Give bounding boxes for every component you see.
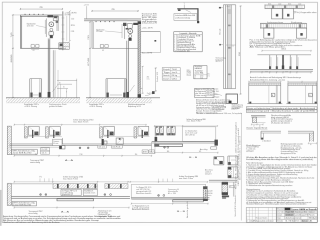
bottom dimension details section A <box>57 80 77 82</box>
label box bottom left row2 <box>12 201 36 205</box>
svg-text:Nr.1: Nr.1 <box>227 6 231 8</box>
dim row2 right <box>131 203 208 205</box>
svg-text:Hinweis zu 4+5:: Hinweis zu 4+5: <box>195 89 206 91</box>
door leaf section B <box>126 41 128 97</box>
svg-text:Revision Boden: Revision Boden <box>256 218 268 220</box>
svg-text:12.03.04: 12.03.04 <box>286 214 293 216</box>
svg-text:Doppelboden OKFF =: Doppelboden OKFF = <box>89 104 104 106</box>
svg-text:3855: 3855 <box>281 49 286 51</box>
ceiling slab double line section B <box>84 18 141 20</box>
small stacked boxes row1 <box>41 148 50 151</box>
end post row1 right <box>214 140 217 146</box>
svg-text:850: 850 <box>135 154 138 156</box>
text block under bracket A <box>246 143 303 155</box>
svg-text:25 kg: 25 kg <box>207 94 212 96</box>
extra vertical and diagonal leader section A bottom <box>57 70 59 97</box>
svg-text:TW-01: TW-01 <box>172 69 178 71</box>
svg-text:B: B <box>272 95 273 97</box>
svg-text:2740: 2740 <box>88 58 90 66</box>
svg-text:UK CW 50: UK CW 50 <box>185 134 195 136</box>
svg-text:alle 600 mm in UK-Profil, Dueb: alle 600 mm in UK-Profil, Duebel je nach <box>196 105 224 107</box>
tick labels row2 right <box>158 179 160 182</box>
pocket outline row1 right <box>182 127 215 142</box>
left vertical dimension section B <box>89 22 91 98</box>
svg-text:745: 745 <box>11 32 13 37</box>
small ticks labels row2 <box>39 178 41 182</box>
svg-text:GK2: GK2 <box>150 152 154 154</box>
rail strip right line <box>235 5 237 89</box>
variante header bar 1 <box>246 107 317 113</box>
svg-text:8. Masse sind am Bau zu pruefe: 8. Masse sind am Bau zu pruefen; Toleran… <box>246 181 293 183</box>
vertical rail strip assembly (door track elevation) <box>212 5 243 111</box>
top dimension row2 right <box>130 181 207 183</box>
svg-text:+2.42 = UK FD: +2.42 = UK FD <box>65 13 78 15</box>
bracket detail lower right section A <box>59 43 70 50</box>
svg-text:1760: 1760 <box>79 154 82 156</box>
detail box 1 between rows <box>214 157 224 165</box>
detail box 2 between rows <box>228 156 238 165</box>
left vertical dimension section A <box>12 15 14 98</box>
elevation: track with hanger posts (right) <box>250 49 313 82</box>
company logo box <box>285 208 291 210</box>
small data table (mid left) <box>162 68 180 81</box>
wall posts row1 right <box>156 126 160 135</box>
track baseline <box>250 68 313 70</box>
svg-text:GK 12.5: GK 12.5 <box>216 61 222 63</box>
guide dots row2 <box>40 194 42 196</box>
small label boxes right end row1 <box>142 150 148 154</box>
svg-text:765: 765 <box>39 7 42 9</box>
top dimension row2 left <box>14 181 130 183</box>
bracket detail A (angle profile) <box>261 131 317 146</box>
svg-text:120: 120 <box>71 18 75 20</box>
leader label right of plan 1 <box>293 11 296 12</box>
svg-text:2x(2.5): 2x(2.5) <box>147 93 154 95</box>
comb ticks above track bar 2 <box>260 23 262 24</box>
wall post group 3 <box>100 127 103 138</box>
svg-text:einschalig: einschalig <box>28 213 37 215</box>
corner jamb detail (bottom middle) <box>205 180 238 199</box>
svg-text:FFB: FFB <box>71 31 74 33</box>
svg-text:+2.42 = UK FD: +2.42 = UK FD <box>142 27 154 29</box>
svg-text:12.5 mm: 12.5 mm <box>27 25 35 27</box>
svg-text:GK 12.5: GK 12.5 <box>99 147 106 149</box>
svg-text:Mineralwolle: Mineralwolle <box>168 191 178 193</box>
svg-text:850: 850 <box>35 154 38 156</box>
label arrow left of rail top <box>219 7 221 9</box>
svg-text:Daemm.: Daemm. <box>53 141 60 143</box>
svg-text:27: 27 <box>253 125 255 127</box>
svg-text:B - B: B - B <box>177 211 185 213</box>
svg-text:12.5 mm auf: 12.5 mm auf <box>185 132 198 134</box>
svg-text:- UK CW 75/50: - UK CW 75/50 <box>97 212 108 214</box>
small label boxes under track row1 mid <box>98 145 107 148</box>
svg-text:Vormauerung: Vormauerung <box>216 58 226 60</box>
svg-text:80 kg: 80 kg <box>207 89 212 91</box>
title block cell fills <box>295 211 317 214</box>
bottom dimension row1 <box>14 155 151 157</box>
dimension line 765 top of section B <box>92 10 138 12</box>
svg-text:Bodenfuehrung: Bodenfuehrung <box>232 104 243 106</box>
svg-text:80 kg: 80 kg <box>172 75 178 77</box>
svg-text:B - B: B - B <box>189 157 197 159</box>
door edge cluster row1 right <box>155 137 158 141</box>
top dimension line row1 left <box>14 124 146 126</box>
notes block bottom left <box>3 215 122 224</box>
svg-text:Blende: Blende <box>212 89 218 91</box>
svg-text:63: 63 <box>33 50 35 52</box>
rail top cap <box>223 4 235 6</box>
detail: top track small section (top middle) <box>174 3 199 23</box>
svg-text:63: 63 <box>102 50 104 52</box>
svg-text:1x Rigips RF 12.5: 1x Rigips RF 12.5 <box>136 187 151 189</box>
dark dot left of rail mid <box>219 44 221 46</box>
svg-text:600: 600 <box>265 71 269 73</box>
track top line <box>257 54 311 56</box>
fitting blocks at box bottom section A <box>31 45 34 48</box>
bottom guide box detail <box>226 94 238 103</box>
plan view row 1 left: horizontal section through doors <box>7 119 154 165</box>
svg-text:alle 600 mm an UK-Decke,: alle 600 mm an UK-Decke, <box>281 146 302 148</box>
rail inner marks <box>228 25 231 27</box>
wall tick dashes section A <box>62 17 65 19</box>
svg-text:3740: 3740 <box>239 52 241 56</box>
svg-text:40 kg: 40 kg <box>207 92 212 94</box>
svg-text:Daemmung 40: Daemmung 40 <box>168 189 179 191</box>
svg-text:Mass = OK FFB: Mass = OK FFB <box>142 53 152 55</box>
track profile bar 1 <box>265 4 304 6</box>
free note text block (mid, under boxes) <box>196 99 240 115</box>
svg-text:Plan-Nr.: Plan-Nr. <box>309 214 316 216</box>
door leaf square 4 plan <box>296 28 306 38</box>
svg-text:855: 855 <box>71 25 75 27</box>
elevation box left (door leaf front) <box>247 81 317 104</box>
svg-text:+2.74: +2.74 <box>84 5 89 7</box>
ticks under baseline <box>251 71 312 73</box>
svg-text:1:5 / 1:10: 1:5 / 1:10 <box>277 211 284 213</box>
floor hatch section A <box>6 98 80 103</box>
soffit hatched band row2 seg1 <box>53 184 98 189</box>
svg-text:12.5 mm: 12.5 mm <box>96 31 103 33</box>
svg-text:Doppelboden OKFF =: Doppelboden OKFF = <box>24 104 39 106</box>
svg-text:D: D <box>194 77 195 79</box>
svg-text:Sockel 300: Sockel 300 <box>157 72 159 82</box>
svg-text:40: 40 <box>259 125 261 127</box>
svg-text:Beplankung 2x12.5: Beplankung 2x12.5 <box>128 106 141 108</box>
svg-text:1: 1 <box>184 3 185 5</box>
svg-text:10: 10 <box>174 51 176 53</box>
svg-text:zweischalig: zweischalig <box>30 162 40 164</box>
svg-text:Blende: Blende <box>220 28 222 34</box>
svg-text:30: 30 <box>59 82 61 84</box>
meeting stile dark cluster row1 <box>59 144 61 150</box>
rail strip gray band <box>227 5 231 89</box>
svg-text:2x Rigips RF 12.5: 2x Rigips RF 12.5 <box>62 190 77 192</box>
small left dimension section B <box>86 6 88 19</box>
wall post group 1 <box>24 127 27 138</box>
title block outline <box>276 207 317 222</box>
pocket outline row2 right <box>131 184 205 198</box>
revision table <box>246 207 276 222</box>
rail cross tick mid <box>226 44 236 46</box>
wall line right side section A <box>61 11 63 50</box>
svg-text:Junior 80: Junior 80 <box>172 72 178 74</box>
wall post group 2 <box>45 127 48 138</box>
track profile bar 2 <box>260 23 306 25</box>
label box under top track detail <box>174 14 197 21</box>
svg-text:Junior 80/B B=1760: Junior 80/B B=1760 <box>13 204 31 206</box>
svg-text:- Daemmung 40 mm: - Daemmung 40 mm <box>97 214 111 216</box>
view: vertical section Schnitt B-B with ceiling (second) <box>84 5 161 109</box>
svg-text:2x GK: 2x GK <box>41 149 47 151</box>
svg-text:50: 50 <box>230 186 232 188</box>
door leaf square 2 plan <box>283 8 294 19</box>
roller carriage assembly section A <box>47 15 53 17</box>
floor line section A <box>6 97 80 99</box>
svg-text:40: 40 <box>147 77 150 79</box>
svg-text:auf UK CW 50: auf UK CW 50 <box>136 189 149 191</box>
soffit hatched band row2 seg2 <box>105 184 128 189</box>
sliding door leaf section A <box>47 38 49 96</box>
dim row1 right <box>155 152 218 154</box>
guide dots row2 right <box>158 194 160 196</box>
track row2 right <box>131 196 209 198</box>
door leaf bar row1 right <box>155 144 183 146</box>
connector lines under posts <box>24 136 61 138</box>
rail bottom cap <box>223 88 235 90</box>
header box section B <box>91 21 93 49</box>
right overall dimension 3740 <box>240 6 242 94</box>
label box row1 left <box>11 149 37 154</box>
white label box left of stile row1 <box>52 139 62 145</box>
label box 2 row2 (Stahlblech) <box>83 189 97 195</box>
base pedestal section A <box>29 79 31 98</box>
svg-text:CW-Profil: CW-Profil <box>112 147 121 149</box>
floor hatch section B <box>86 98 152 103</box>
bracket detail B (angle profile mirrored) <box>288 130 314 132</box>
condensed note bar <box>246 156 317 161</box>
svg-text:880: 880 <box>167 151 170 153</box>
boxed note block (mid) <box>195 88 223 97</box>
door leaf square 3 plan <box>264 28 274 38</box>
jamb lines to floor section A <box>52 50 54 97</box>
svg-text:600: 600 <box>285 71 289 73</box>
svg-text:B 925: B 925 <box>190 70 192 75</box>
floor line section B <box>86 97 160 99</box>
track row2 <box>11 196 130 198</box>
svg-text:L 30x30x3: L 30x30x3 <box>262 141 271 143</box>
svg-text:25: 25 <box>63 87 65 89</box>
hanger posts <box>269 55 271 70</box>
dimension line 765 top of section A <box>20 8 62 10</box>
plan view row 1 right: section variant single door <box>152 112 243 178</box>
fitting blocks bottom box B <box>100 45 103 48</box>
svg-text:26: 26 <box>194 76 196 78</box>
left wall strip row2 <box>7 183 11 205</box>
plan view row 2 right <box>129 175 209 213</box>
view: vertical section Schnitt A-A (top left) <box>6 7 80 108</box>
svg-text:Typ: Typ <box>163 72 170 74</box>
top dimension row1 right <box>155 125 218 127</box>
variante header bar 2 <box>246 110 317 113</box>
extra square post right of pair3 row1 <box>116 138 123 145</box>
title block grid <box>276 209 317 211</box>
plan view row 2 left: horizontal section variant <box>7 176 130 219</box>
guide dots row1 right <box>164 146 166 148</box>
svg-text:M 1:5: M 1:5 <box>295 221 299 223</box>
track double line row1 <box>9 143 151 145</box>
door leaf square 1 plan <box>272 8 283 19</box>
svg-text:h = 150 mm: h = 150 mm <box>246 149 256 151</box>
niche rectangle right of wall B <box>141 32 161 53</box>
svg-text:60: 60 <box>310 144 312 146</box>
bottom dimension row2 <box>14 207 129 209</box>
svg-text:- Beplankung 2x 12.5: - Beplankung 2x 12.5 <box>97 210 111 212</box>
plan section: top track with door leaves (top right) <box>250 3 318 48</box>
svg-text:siehe auch: siehe auch <box>232 107 241 109</box>
svg-text:12.5: 12.5 <box>41 152 46 154</box>
svg-text:1:5: 1:5 <box>207 75 210 77</box>
leader diagonal at door bottom section B <box>130 85 135 92</box>
niche vertical dimension section B <box>155 68 157 91</box>
L-profile detail (right column) <box>251 114 294 127</box>
track row1 right <box>152 140 218 142</box>
elevation box right (door leaf front) <box>288 81 317 83</box>
left wall strip row1 <box>7 126 11 155</box>
svg-text:765: 765 <box>111 9 114 11</box>
base pedestal section B <box>105 79 107 98</box>
track bar detail <box>177 8 198 10</box>
guide dots row1 <box>79 147 81 149</box>
vertical dim right of wall section B <box>142 66 144 93</box>
svg-text:2600: 2600 <box>11 54 13 62</box>
roller carriage assembly section B <box>133 23 138 25</box>
top line row2 <box>11 183 53 185</box>
wall post group 4 <box>134 127 137 138</box>
svg-text:Junior 80/B B=1760: Junior 80/B B=1760 <box>12 152 31 154</box>
label box inside view row2 (2x Rigips) <box>61 189 81 195</box>
svg-text:Beschlag:: Beschlag: <box>195 66 204 68</box>
svg-text:40 mm: 40 mm <box>53 143 58 145</box>
svg-text:Index d: Index d <box>309 211 315 213</box>
scan shadow left edge <box>0 190 2 226</box>
fixing detail at wall base section B <box>152 91 155 94</box>
divider line right of plan views <box>240 113 242 220</box>
door leaf bar row2 <box>57 199 94 201</box>
svg-text:745: 745 <box>88 35 90 40</box>
svg-text:min. 40 mm: min. 40 mm <box>142 17 158 19</box>
tall detail box between rows <box>228 167 238 178</box>
svg-text:B: B <box>309 95 310 97</box>
header box (Vorwand) section A <box>20 14 62 16</box>
door leaf bar row2 right <box>173 200 204 202</box>
notes list right column <box>246 162 317 206</box>
legend table Legende-Bauteile <box>174 32 203 53</box>
svg-text:9. Oberflaechen: siehe Raumbuc: 9. Oberflaechen: siehe Raumbuch <box>246 183 271 185</box>
svg-text:1:5: 1:5 <box>201 77 203 79</box>
end post row2 right <box>203 186 207 200</box>
rail strip left lines <box>222 5 224 89</box>
wall strip right section B <box>138 21 141 98</box>
wall vertical detail <box>197 8 199 23</box>
stamp box (Drehpunkt) <box>187 66 211 80</box>
